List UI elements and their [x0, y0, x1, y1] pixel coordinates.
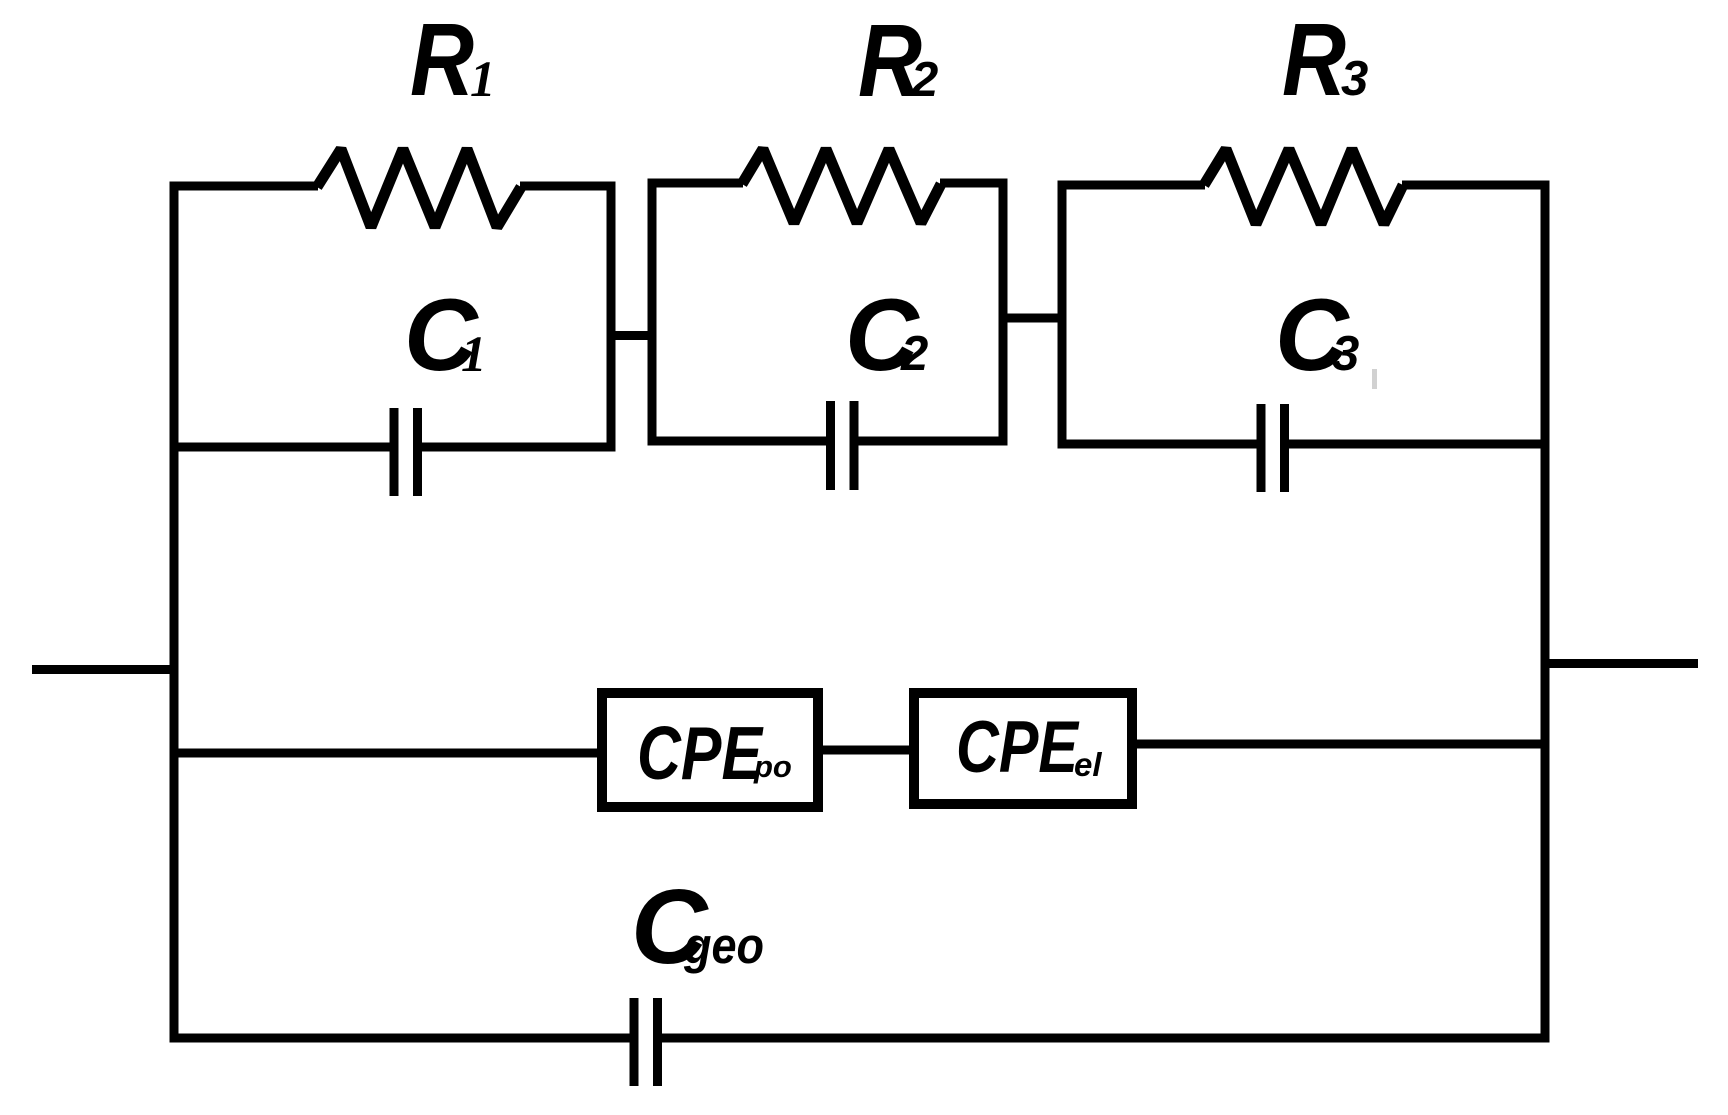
wire CPE branch left segment [170, 749, 601, 758]
wire junction block1-block2 [607, 331, 657, 340]
wire block2 right vertical [999, 179, 1008, 446]
capacitor C3 [1261, 404, 1285, 492]
wire block1 bottom left segment [170, 443, 391, 452]
label C2 [845, 278, 928, 392]
wire right terminal lead [1545, 659, 1698, 668]
label CPEpo [637, 711, 792, 795]
svg-text:1: 1 [461, 327, 487, 383]
wire block1 top left segment [170, 182, 319, 191]
wire Cgeo branch right segment [662, 1034, 1550, 1043]
svg-text:1: 1 [470, 52, 496, 108]
wire block1 top right segment [520, 182, 616, 191]
label C1 [404, 278, 487, 392]
resistor R2 [742, 149, 941, 223]
resistor R1 [317, 149, 521, 227]
svg-text:2: 2 [900, 327, 928, 381]
wire block1 bottom right segment [422, 443, 616, 452]
label R2 [858, 3, 938, 118]
label Cgeo [631, 868, 764, 986]
wire block2 top right segment [940, 179, 1008, 188]
wire right rail (node B vertical) [1541, 181, 1550, 1043]
label C3 [1275, 278, 1359, 392]
svg-text:el: el [1074, 746, 1102, 783]
wire block2 bottom right segment [858, 437, 1008, 446]
svg-text:3: 3 [1341, 52, 1368, 106]
wire block2 top left segment [648, 179, 744, 188]
wire Cgeo branch left segment [170, 1034, 631, 1043]
svg-text:3: 3 [1332, 327, 1359, 381]
resistor R3 [1204, 149, 1403, 224]
svg-text:CPE: CPE [637, 711, 764, 795]
wire block2 bottom left segment [648, 437, 827, 446]
capacitor C2 [831, 401, 855, 490]
wire block3 top right segment [1402, 181, 1550, 190]
svg-text:po: po [753, 749, 792, 784]
wire block2 left vertical [648, 179, 657, 446]
svg-text:R: R [410, 2, 474, 117]
capacitor C1 [394, 408, 418, 496]
CPE element U1 box [602, 693, 818, 807]
svg-text:2: 2 [910, 53, 938, 107]
wire block3 bottom left segment [1058, 440, 1258, 449]
wire left terminal lead [32, 665, 174, 674]
label R3 [1282, 2, 1368, 117]
svg-text:CPE: CPE [956, 707, 1080, 788]
wire between CPE boxes [820, 746, 912, 755]
wire block3 top left segment [1058, 181, 1206, 190]
label R1 [410, 2, 496, 117]
wire CPE branch right segment [1134, 740, 1550, 749]
wire block3 bottom right segment [1289, 440, 1550, 449]
wire block3 left vertical [1058, 181, 1067, 449]
svg-text:geo: geo [683, 917, 764, 974]
capacitor Cgeo [634, 998, 658, 1086]
wire junction block2-block3 [999, 314, 1067, 323]
wire left rail (node A vertical) [170, 182, 179, 1043]
svg-text:R: R [1282, 2, 1346, 117]
CPE element U2 box [914, 693, 1132, 804]
label CPEel [956, 707, 1102, 788]
wire block1 right vertical [607, 182, 616, 452]
artifact faint mark right of C3 [1372, 369, 1377, 389]
